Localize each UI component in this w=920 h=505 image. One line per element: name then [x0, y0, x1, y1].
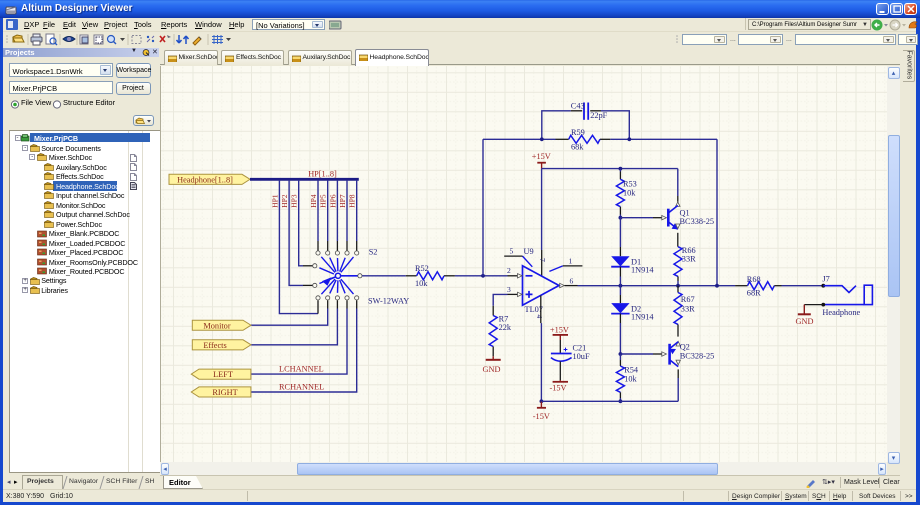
switch S2 SW-12WAY	[313, 251, 362, 300]
power +15V	[532, 152, 551, 169]
wire node A to Q1 base	[620, 217, 653, 219]
wire J7 pin 2 to GND	[804, 304, 823, 306]
svg-text:GND: GND	[483, 365, 501, 374]
svg-text:68R: 68R	[747, 289, 761, 298]
resistor R67	[674, 286, 695, 337]
pin hotspot Q1 collector	[676, 202, 680, 207]
resistor R59	[556, 128, 611, 151]
svg-text:10uF: 10uF	[573, 352, 590, 361]
svg-text:HP7: HP7	[338, 194, 347, 208]
svg-text:33R: 33R	[681, 304, 695, 313]
wire rail to Q1 collector	[677, 169, 679, 196]
resistor R66	[674, 246, 696, 286]
wire +15V rail	[542, 168, 678, 170]
pin stub S2 top contact 4	[346, 241, 348, 251]
junction +15V/R53	[619, 167, 623, 171]
svg-text:10k: 10k	[415, 279, 428, 288]
svg-text:68k: 68k	[571, 143, 584, 152]
junction -15V rail left	[540, 399, 544, 403]
wire node B to Q2 base	[620, 353, 653, 355]
svg-text:5: 5	[510, 247, 514, 256]
capacitor C21	[551, 340, 590, 380]
wire LEFT (LCHANNEL) to S2	[251, 309, 347, 375]
wire R53 to bias node A	[619, 215, 621, 218]
svg-text:+15V: +15V	[532, 152, 551, 161]
svg-text:1N914: 1N914	[631, 313, 654, 322]
wire C43 branch right	[590, 110, 601, 112]
junction output/diodes	[619, 284, 623, 288]
pin stub S2 top contact 1	[317, 241, 319, 251]
pin stub S2 bottom contact 1	[317, 300, 319, 313]
wire op-amp pin 3 to R7	[508, 293, 518, 295]
junction output/feedback	[715, 284, 719, 288]
power -15V bottom	[533, 401, 550, 421]
svg-text:1N914: 1N914	[631, 266, 654, 275]
svg-text:R59: R59	[571, 128, 585, 137]
junction J7 pin 1	[821, 284, 825, 288]
svg-text:R68: R68	[747, 275, 761, 284]
svg-text:J7: J7	[822, 275, 829, 284]
junction R54/-15V rail	[619, 399, 623, 403]
svg-text:10k: 10k	[624, 374, 637, 383]
junction J7 pin 2	[821, 303, 825, 307]
pin hotspot op-amp pin 3	[518, 292, 523, 296]
pin stub S2 top contact 3	[336, 241, 338, 251]
op-amp pin 1	[563, 265, 583, 267]
svg-text:HP4: HP4	[309, 194, 318, 208]
svg-text:BC328-25: BC328-25	[680, 352, 715, 361]
svg-text:Headphone: Headphone	[822, 308, 860, 317]
junction node B (Q2 base)	[619, 352, 623, 356]
svg-text:U9: U9	[524, 247, 534, 256]
svg-text:+15V: +15V	[550, 325, 569, 334]
wire R59 to right junction	[610, 138, 717, 140]
svg-text:4: 4	[535, 315, 544, 319]
pin stub S2 left upper contact	[303, 265, 312, 267]
svg-text:HP[1..8]: HP[1..8]	[308, 169, 337, 178]
op-amp pin 5	[504, 255, 522, 257]
svg-text:Headphone[1..8]: Headphone[1..8]	[177, 176, 233, 185]
svg-text:22k: 22k	[499, 323, 512, 332]
wire feedback riser left	[482, 139, 484, 275]
wire D1 to output node	[619, 267, 621, 277]
port RIGHT	[191, 387, 251, 397]
svg-text:SW-12WAY: SW-12WAY	[368, 297, 409, 306]
wire HP5	[327, 181, 329, 241]
transistor Q2 BC328-25	[670, 342, 715, 367]
resistor R52	[406, 264, 455, 288]
svg-text:R53: R53	[623, 180, 637, 189]
wire output node to D2	[619, 286, 621, 295]
wire -15V rail	[541, 400, 678, 402]
diode D2 1N914	[611, 303, 654, 322]
svg-text:LEFT: LEFT	[213, 370, 233, 379]
capacitor C43	[571, 102, 608, 121]
wire op-amp output	[565, 285, 578, 287]
wire HP8	[356, 181, 358, 241]
junction C43 right	[627, 137, 631, 141]
svg-text:HP6: HP6	[328, 194, 337, 208]
wire HP2	[289, 181, 303, 286]
wire R54 to -15V rail	[619, 398, 621, 401]
wire D2 to node B	[619, 314, 621, 323]
svg-text:3: 3	[507, 285, 511, 294]
ground GND at J7	[796, 305, 814, 326]
svg-text:-15V: -15V	[533, 412, 550, 421]
svg-text:7: 7	[538, 258, 547, 262]
pin hotspot op-amp pin 6	[560, 283, 565, 287]
pin stub S2 top contact 5	[356, 241, 358, 251]
wire feedback riser right	[716, 139, 718, 285]
transistor Q1 BC338-25	[668, 206, 714, 230]
svg-text:22pF: 22pF	[590, 111, 607, 120]
junction C43 left	[540, 137, 544, 141]
svg-text:GND: GND	[796, 317, 814, 326]
svg-text:S2: S2	[369, 248, 378, 257]
wire Q1 emitter to R66	[677, 233, 679, 247]
svg-text:HP8: HP8	[348, 194, 357, 208]
svg-text:-15V: -15V	[550, 384, 567, 393]
resistor R53	[616, 169, 636, 215]
wire Monitor to S2	[251, 309, 328, 326]
junction node A (Q1 base)	[619, 216, 623, 220]
wire S2 output to R52	[362, 275, 406, 277]
junction output/R66-R67	[676, 284, 680, 288]
wire HP4	[317, 181, 319, 241]
port LEFT	[191, 369, 251, 379]
wire HP7	[346, 181, 348, 241]
connector J7 headphone jack	[822, 275, 872, 317]
svg-text:HP3: HP3	[290, 194, 299, 208]
svg-text:Monitor: Monitor	[203, 321, 230, 330]
svg-text:RCHANNEL: RCHANNEL	[279, 383, 324, 392]
pin hotspot Q1 base	[662, 216, 667, 220]
pin stub S2 left lower contact	[303, 284, 312, 286]
svg-text:2: 2	[507, 266, 511, 275]
svg-text:RIGHT: RIGHT	[212, 388, 237, 397]
svg-text:R67: R67	[681, 295, 695, 304]
wire R52 to op-amp pin 2	[455, 275, 508, 277]
wire Q2 collector to -15V rail	[677, 369, 679, 378]
wire op-amp pin 4 to -15V rail	[540, 296, 542, 324]
resistor R68	[735, 275, 781, 298]
wire R68 to J7	[782, 285, 824, 287]
resistor R7	[489, 306, 512, 357]
svg-text:Q2: Q2	[680, 343, 690, 352]
svg-text:Q1: Q1	[680, 209, 690, 218]
ground GND at R7	[483, 356, 501, 374]
svg-text:R54: R54	[624, 366, 639, 375]
svg-text:HP2: HP2	[280, 194, 289, 208]
power +15V at C21	[550, 325, 569, 340]
S2 output contact	[358, 274, 362, 278]
svg-text:HP5: HP5	[319, 194, 328, 208]
wire HP1	[279, 181, 318, 314]
wire node A to D1	[619, 218, 621, 247]
power -15V at C21	[550, 380, 569, 392]
pin hotspot Q1 emitter	[676, 224, 680, 229]
svg-text:Effects: Effects	[203, 341, 226, 350]
diode D1 1N914	[611, 256, 654, 274]
wire HP3	[299, 181, 303, 266]
port Effects	[192, 340, 251, 350]
pin hotspot Q2 emitter	[676, 341, 680, 346]
port Monitor	[192, 320, 251, 330]
resistor R54	[616, 354, 638, 398]
svg-text:33R: 33R	[682, 255, 696, 264]
svg-text:R52: R52	[415, 264, 429, 273]
wire feedback top	[483, 138, 556, 140]
pin hotspot Q2 base	[662, 352, 667, 356]
junction node inverting input	[481, 274, 485, 278]
svg-text:C43: C43	[571, 102, 585, 111]
op-amp U9 TL074	[523, 247, 563, 314]
pin hotspot Q2 collector	[676, 360, 680, 365]
wire +15V down to op-amp pin 7	[541, 169, 543, 250]
wire C43 branch left	[542, 111, 571, 140]
svg-text:BC338-25: BC338-25	[680, 217, 715, 226]
bus HP[1..8]	[250, 178, 359, 181]
wire Effects to S2	[251, 309, 337, 345]
port Headphone[1..8]	[169, 174, 250, 184]
svg-text:LCHANNEL: LCHANNEL	[279, 364, 324, 373]
wire RIGHT (RCHANNEL) to S2	[251, 309, 357, 393]
svg-text:1: 1	[569, 256, 573, 265]
svg-text:10k: 10k	[623, 188, 636, 197]
wire HP6	[336, 181, 338, 241]
svg-text:HP1: HP1	[270, 194, 279, 208]
pin hotspot op-amp pin 2	[518, 274, 523, 278]
pin stub S2 top contact 2	[327, 241, 329, 251]
svg-text:6: 6	[570, 277, 574, 286]
